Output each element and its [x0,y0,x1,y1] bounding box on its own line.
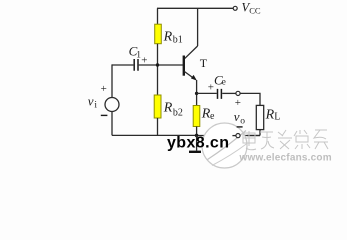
svg-text:o: o [240,116,245,126]
wire collector diagonal [184,46,197,59]
junction emitter node [195,92,198,95]
source vi circle [105,98,119,112]
svg-text:www.elecfans.com: www.elecfans.com [239,153,332,164]
wire left rail lower [111,112,113,136]
junction ground node [195,134,199,138]
svg-text:CC: CC [249,6,261,16]
wire Rb1 top lead [157,8,159,24]
wire bottom output segment [197,135,260,137]
ground stem [196,135,198,150]
wire emitter vertical upper [196,80,198,106]
wire stub left of bottom terminal [232,135,236,137]
svg-text:+: + [141,54,147,66]
capacitor Ce [218,89,222,99]
watermark chinese characters [243,130,328,150]
svg-text:T: T [200,56,208,70]
svg-text:R: R [265,108,275,123]
wire base from C1 to bar [139,64,183,66]
wire top rail Vcc [157,7,233,9]
svg-text:b1: b1 [173,35,183,46]
capacitor C1 [134,59,138,71]
svg-text:L: L [274,112,280,123]
svg-text:v: v [88,94,94,109]
wire bottom rail [112,134,197,136]
watermark logo swoosh circle [202,123,247,168]
svg-text:e: e [222,78,226,88]
svg-text:i: i [94,101,97,111]
ground bar [189,151,201,153]
svg-text:+: + [235,97,241,109]
output terminal bottom (over watermark) [236,134,240,138]
wire Ce to output terminal [222,92,236,94]
wire vi to C1 [112,64,133,66]
svg-text:+: + [101,83,107,95]
transistor T base bar [183,56,185,76]
resistor RL [256,105,263,129]
svg-text:e: e [210,111,215,122]
Vcc terminal [233,6,237,10]
svg-text:b2: b2 [173,107,183,118]
resistor Re [193,106,200,127]
wire stub right of logo to RL [247,135,260,137]
svg-text:ybx8.cn: ybx8.cn [167,134,229,151]
wire RL bottom lead [259,130,261,136]
wire left rail upper [111,64,113,97]
wire emitter to Ce [197,92,217,94]
output terminal top [236,91,240,95]
wire collector vertical [197,8,199,46]
wire Rb2 bottom lead [157,118,159,135]
minus of vi [101,114,108,116]
junction base node [156,63,159,66]
resistor Rb1 [155,24,162,44]
svg-text:+: + [208,81,214,93]
svg-text:R: R [163,29,173,44]
svg-text:R: R [163,101,173,116]
wire Re bottom lead [196,127,198,136]
wire Rb1-Rb2 middle [157,44,159,95]
minus of vo [237,126,243,128]
transistor emitter diagonal with arrow [184,72,194,79]
resistor Rb2 [154,95,161,118]
svg-text:v: v [234,109,240,124]
wire terminal to RL corner [240,93,260,105]
